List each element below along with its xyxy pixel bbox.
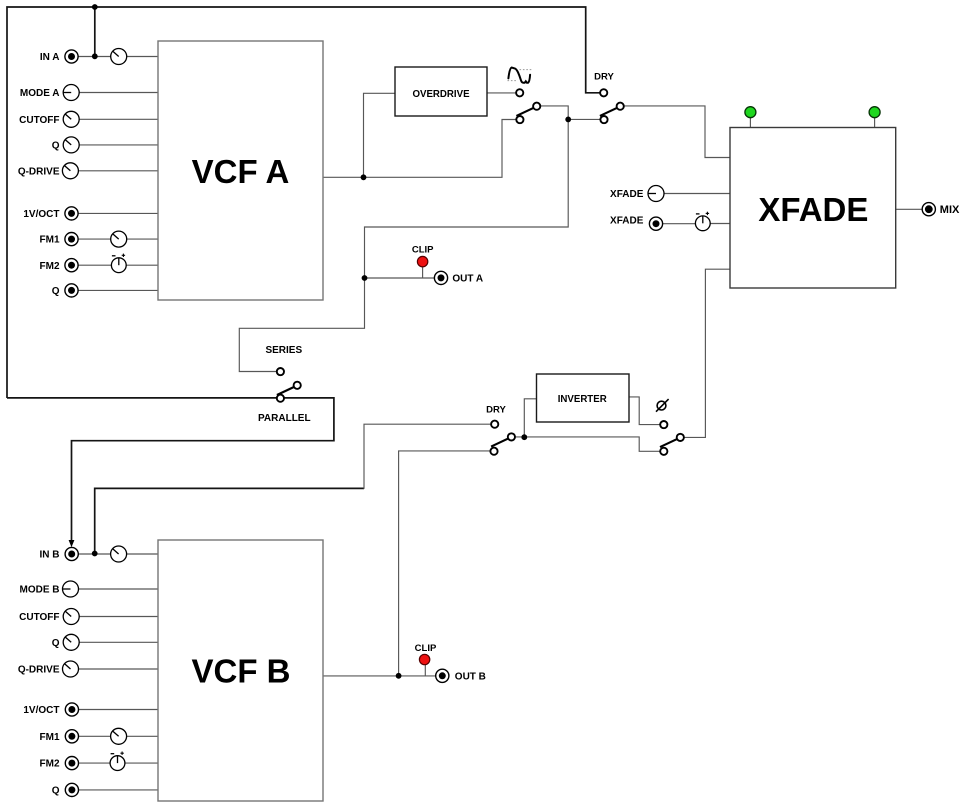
- svg-text:1V/OCT: 1V/OCT: [23, 209, 59, 220]
- svg-text:IN A: IN A: [40, 52, 60, 63]
- svg-text:Q: Q: [52, 141, 60, 152]
- svg-text:Q: Q: [52, 786, 60, 797]
- svg-text:PARALLEL: PARALLEL: [258, 413, 311, 424]
- svg-text:XFADE: XFADE: [610, 216, 644, 227]
- svg-text:DRY: DRY: [486, 404, 506, 415]
- svg-text:MODE A: MODE A: [20, 88, 60, 99]
- svg-text:FM1: FM1: [40, 732, 60, 743]
- svg-text:IN B: IN B: [40, 550, 60, 561]
- svg-text:VCF A: VCF A: [192, 153, 290, 190]
- svg-text:XFADE: XFADE: [610, 189, 644, 200]
- svg-text:OVERDRIVE: OVERDRIVE: [412, 89, 470, 100]
- svg-text:FM2: FM2: [40, 261, 60, 272]
- svg-text:CLIP: CLIP: [415, 643, 437, 654]
- svg-text:DRY: DRY: [594, 72, 614, 83]
- svg-text:OUT B: OUT B: [455, 672, 486, 683]
- svg-text:Q-DRIVE: Q-DRIVE: [18, 665, 60, 676]
- svg-text:VCF B: VCF B: [192, 653, 291, 690]
- svg-text:Q: Q: [52, 638, 60, 649]
- svg-text:MODE B: MODE B: [20, 585, 60, 596]
- svg-text:INVERTER: INVERTER: [558, 394, 607, 405]
- svg-text:1V/OCT: 1V/OCT: [23, 705, 59, 716]
- svg-text:SERIES: SERIES: [265, 345, 302, 356]
- svg-text:XFADE: XFADE: [758, 191, 868, 228]
- svg-text:CUTOFF: CUTOFF: [19, 115, 59, 126]
- svg-text:CLIP: CLIP: [412, 245, 434, 256]
- svg-text:CUTOFF: CUTOFF: [19, 612, 59, 623]
- svg-text:MIX: MIX: [940, 204, 960, 216]
- svg-text:OUT A: OUT A: [452, 274, 483, 285]
- svg-text:FM2: FM2: [40, 759, 60, 770]
- svg-text:Q-DRIVE: Q-DRIVE: [18, 166, 60, 177]
- svg-text:Q: Q: [52, 286, 60, 297]
- svg-text:FM1: FM1: [40, 235, 60, 246]
